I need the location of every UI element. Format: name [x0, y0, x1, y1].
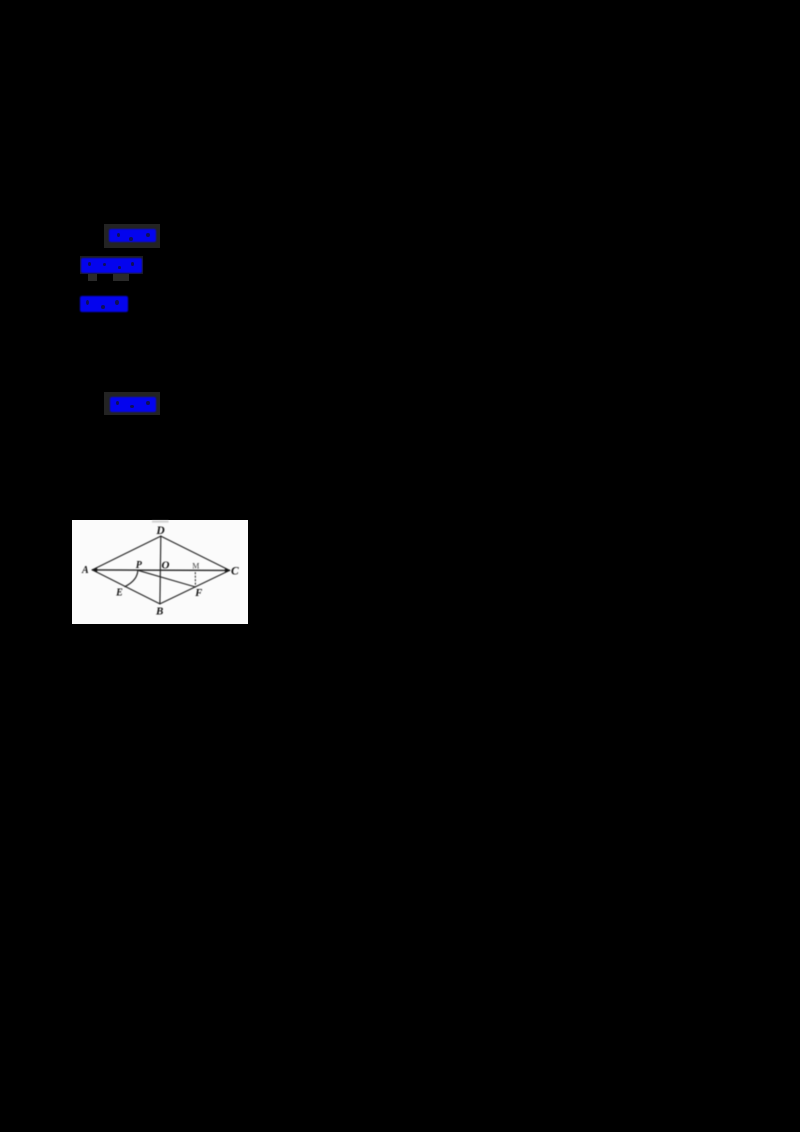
diagonal AC: [92, 568, 229, 571]
side AD: [92, 536, 161, 570]
blue answer blob 3: [80, 296, 128, 312]
svg-text:F: F: [194, 588, 202, 599]
svg-text:E: E: [115, 587, 123, 598]
highlight box 1: [104, 224, 160, 248]
arrow blob at A: [92, 567, 98, 572]
arc PE: [125, 570, 138, 586]
segment PF: [138, 570, 196, 587]
gray descender blob b: [113, 274, 129, 281]
svg-text:D: D: [155, 525, 165, 537]
blue answer blob 1: [109, 229, 156, 242]
dotted MF: [194, 572, 196, 585]
diagonal DB: [159, 536, 162, 604]
side CB: [160, 570, 230, 604]
highlight box 4: [104, 392, 160, 415]
side BA: [92, 569, 160, 603]
svg-text:B: B: [155, 605, 163, 617]
svg-text:O: O: [162, 559, 170, 571]
svg-text:P: P: [136, 559, 143, 570]
gray descender blob a: [88, 274, 97, 281]
highlight box 2: [80, 256, 143, 275]
svg-text:C: C: [231, 565, 239, 577]
top smudge: [152, 520, 169, 522]
svg-text:M: M: [192, 561, 199, 570]
side DC: [161, 536, 230, 570]
blue answer blob 2: [81, 258, 142, 273]
svg-text:A: A: [81, 565, 89, 576]
arrow blob at C: [225, 568, 230, 573]
blue answer blob 4: [110, 397, 156, 412]
white figure panel: [72, 520, 248, 625]
